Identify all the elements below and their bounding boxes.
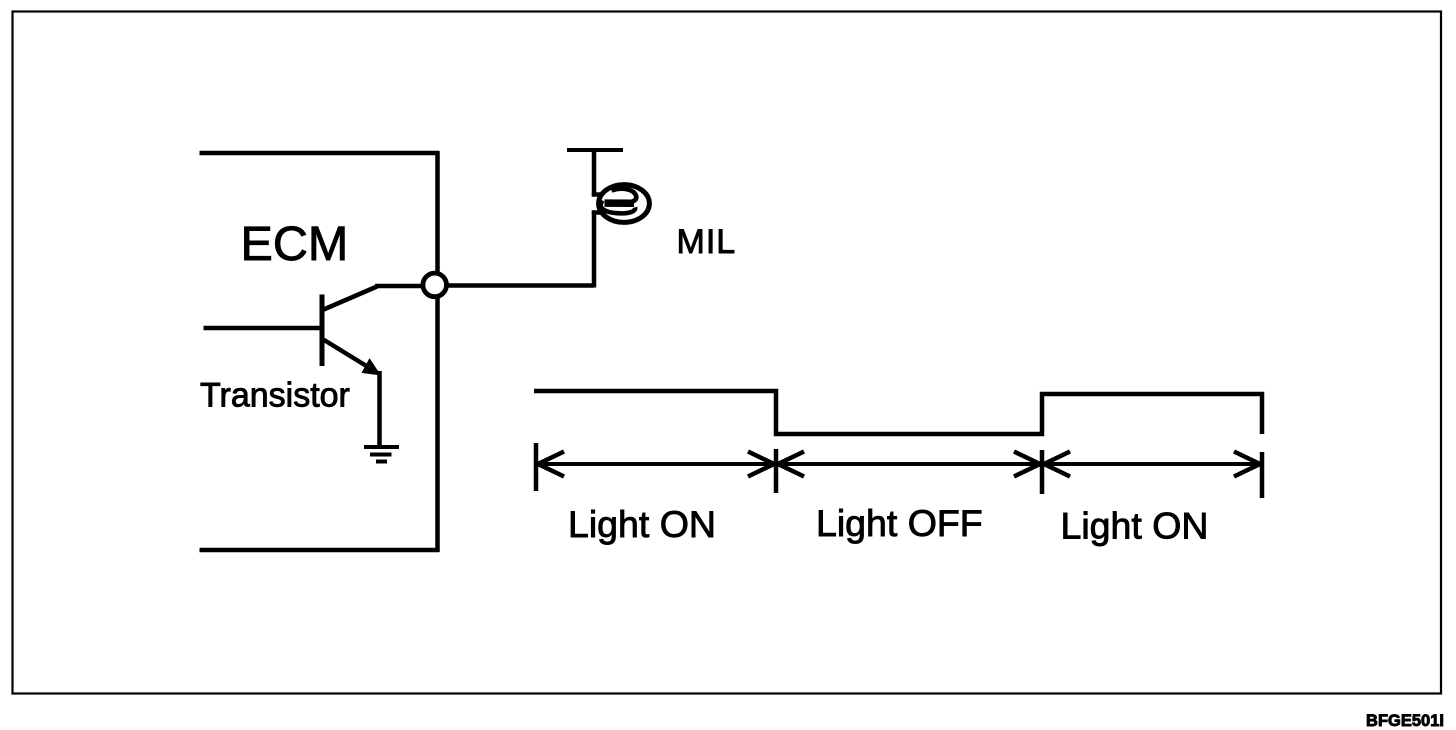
wire: ECM box top edge: [200, 151, 440, 156]
label MIL: [677, 223, 737, 261]
label Transistor: [200, 377, 350, 415]
lamp MIL (bulb with filament): [599, 185, 650, 223]
figure code BFGE501I: [1366, 712, 1444, 730]
wire: supply to lamp: [592, 148, 601, 197]
svg-text:Light OFF: Light OFF: [816, 502, 983, 544]
svg-text:Transistor: Transistor: [200, 377, 350, 415]
ground: [364, 447, 399, 462]
waveform: MIL drive signal (high-low-high): [534, 391, 1262, 434]
arrowhead: left end of second Light ON span: [1044, 452, 1070, 477]
node: MIL output junction: [423, 273, 447, 297]
svg-text:MIL: MIL: [677, 223, 737, 261]
arrowhead: right end of second Light ON span: [1234, 452, 1260, 477]
label Light ON (second interval): [1061, 505, 1209, 547]
transistor Q1 (ECM output transistor): [322, 287, 381, 376]
tick: end of second Light ON interval: [1260, 452, 1265, 498]
wire: lamp down to node wire: [592, 211, 601, 288]
arrowhead: right end of Light ON span: [748, 452, 774, 477]
svg-text:BFGE501I: BFGE501I: [1366, 712, 1444, 730]
power supply terminal bar: [567, 148, 623, 152]
svg-text:ECM: ECM: [241, 217, 349, 271]
label Light OFF: [816, 502, 983, 544]
tick: start of Light ON interval: [534, 443, 539, 491]
svg-text:Light ON: Light ON: [1061, 505, 1209, 547]
label Light ON (first interval): [568, 503, 716, 545]
arrowhead: left end of Light OFF span: [778, 452, 804, 477]
wire: collector to output node: [375, 284, 436, 289]
wire: node to MIL branch: [437, 283, 594, 288]
arrowhead: left end of Light ON span: [538, 452, 564, 477]
svg-text:Light ON: Light ON: [568, 503, 716, 545]
arrowhead: right end of Light OFF span: [1014, 452, 1040, 477]
timeline arrow line: [536, 462, 1262, 466]
wire: ECM box bottom edge: [200, 548, 440, 553]
wire: ECM right-side vertical bus: [435, 151, 440, 552]
wire: transistor base input: [204, 326, 323, 331]
label ECM: [241, 217, 349, 271]
wire: emitter down to ground: [377, 371, 382, 447]
tick: boundary Light ON / Light OFF: [774, 449, 779, 493]
tick: boundary Light OFF / Light ON: [1040, 450, 1045, 494]
